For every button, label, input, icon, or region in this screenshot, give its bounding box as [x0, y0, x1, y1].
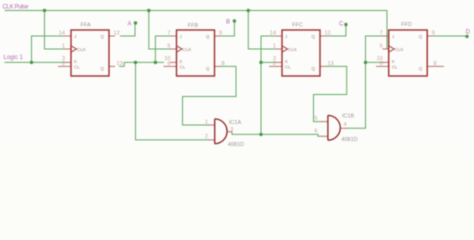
svg-text:J: J	[392, 34, 394, 39]
svg-text:12: 12	[114, 30, 120, 36]
svg-text:FFD: FFD	[401, 22, 412, 28]
svg-text:CL: CL	[392, 65, 398, 70]
svg-text:Logic 1: Logic 1	[4, 55, 24, 61]
svg-text:1: 1	[62, 44, 65, 50]
svg-text:4081D: 4081D	[228, 142, 244, 148]
svg-text:9: 9	[219, 30, 222, 36]
svg-text:6: 6	[167, 61, 170, 67]
svg-text:J: J	[74, 34, 76, 39]
svg-text:Q: Q	[419, 34, 423, 39]
svg-text:4: 4	[344, 122, 347, 128]
svg-text:FFC: FFC	[292, 23, 303, 29]
svg-text:4081D: 4081D	[341, 137, 357, 143]
svg-text:A: A	[127, 22, 131, 28]
svg-text:13: 13	[117, 61, 123, 67]
svg-text:3: 3	[230, 127, 233, 133]
svg-text:8: 8	[434, 61, 437, 67]
svg-text:5: 5	[314, 116, 317, 122]
svg-text:12: 12	[325, 30, 331, 36]
svg-text:6: 6	[314, 128, 317, 134]
svg-text:2: 2	[62, 61, 65, 67]
svg-text:IC1A: IC1A	[229, 120, 242, 126]
svg-text:Q: Q	[206, 34, 210, 39]
svg-text:Q: Q	[311, 66, 315, 71]
svg-text:Q: Q	[311, 34, 315, 39]
svg-text:CL: CL	[74, 65, 80, 70]
svg-text:13: 13	[328, 61, 334, 67]
svg-text:1: 1	[273, 44, 276, 50]
svg-text:Q: Q	[100, 34, 104, 39]
svg-text:CLK Pulse: CLK Pulse	[3, 5, 30, 11]
svg-text:7: 7	[380, 31, 383, 37]
svg-text:7: 7	[167, 31, 170, 37]
svg-text:IC1B: IC1B	[342, 114, 355, 120]
svg-text:CL: CL	[285, 65, 291, 70]
svg-text:6: 6	[380, 61, 383, 67]
svg-text:CL: CL	[180, 65, 186, 70]
svg-text:C: C	[339, 22, 344, 28]
svg-text:B: B	[226, 19, 230, 25]
svg-text:CLK: CLK	[288, 47, 298, 52]
svg-text:FFB: FFB	[188, 23, 199, 29]
svg-text:Q: Q	[419, 66, 423, 71]
svg-text:CLK: CLK	[183, 47, 193, 52]
svg-text:2: 2	[205, 134, 208, 140]
svg-text:Q: Q	[206, 66, 210, 71]
svg-text:14: 14	[270, 31, 276, 37]
svg-text:FFA: FFA	[81, 23, 91, 29]
svg-text:1: 1	[205, 119, 208, 125]
svg-text:5: 5	[167, 44, 170, 50]
svg-text:J: J	[180, 34, 182, 39]
svg-text:5: 5	[380, 44, 383, 50]
svg-text:2: 2	[273, 61, 276, 67]
svg-text:J: J	[285, 34, 287, 39]
svg-text:Q: Q	[100, 66, 104, 71]
svg-text:9: 9	[432, 30, 435, 36]
svg-text:14: 14	[59, 31, 65, 37]
svg-text:D: D	[466, 29, 471, 35]
svg-text:8: 8	[222, 61, 225, 67]
svg-text:CLK: CLK	[395, 47, 405, 52]
svg-text:CLK: CLK	[77, 47, 87, 52]
